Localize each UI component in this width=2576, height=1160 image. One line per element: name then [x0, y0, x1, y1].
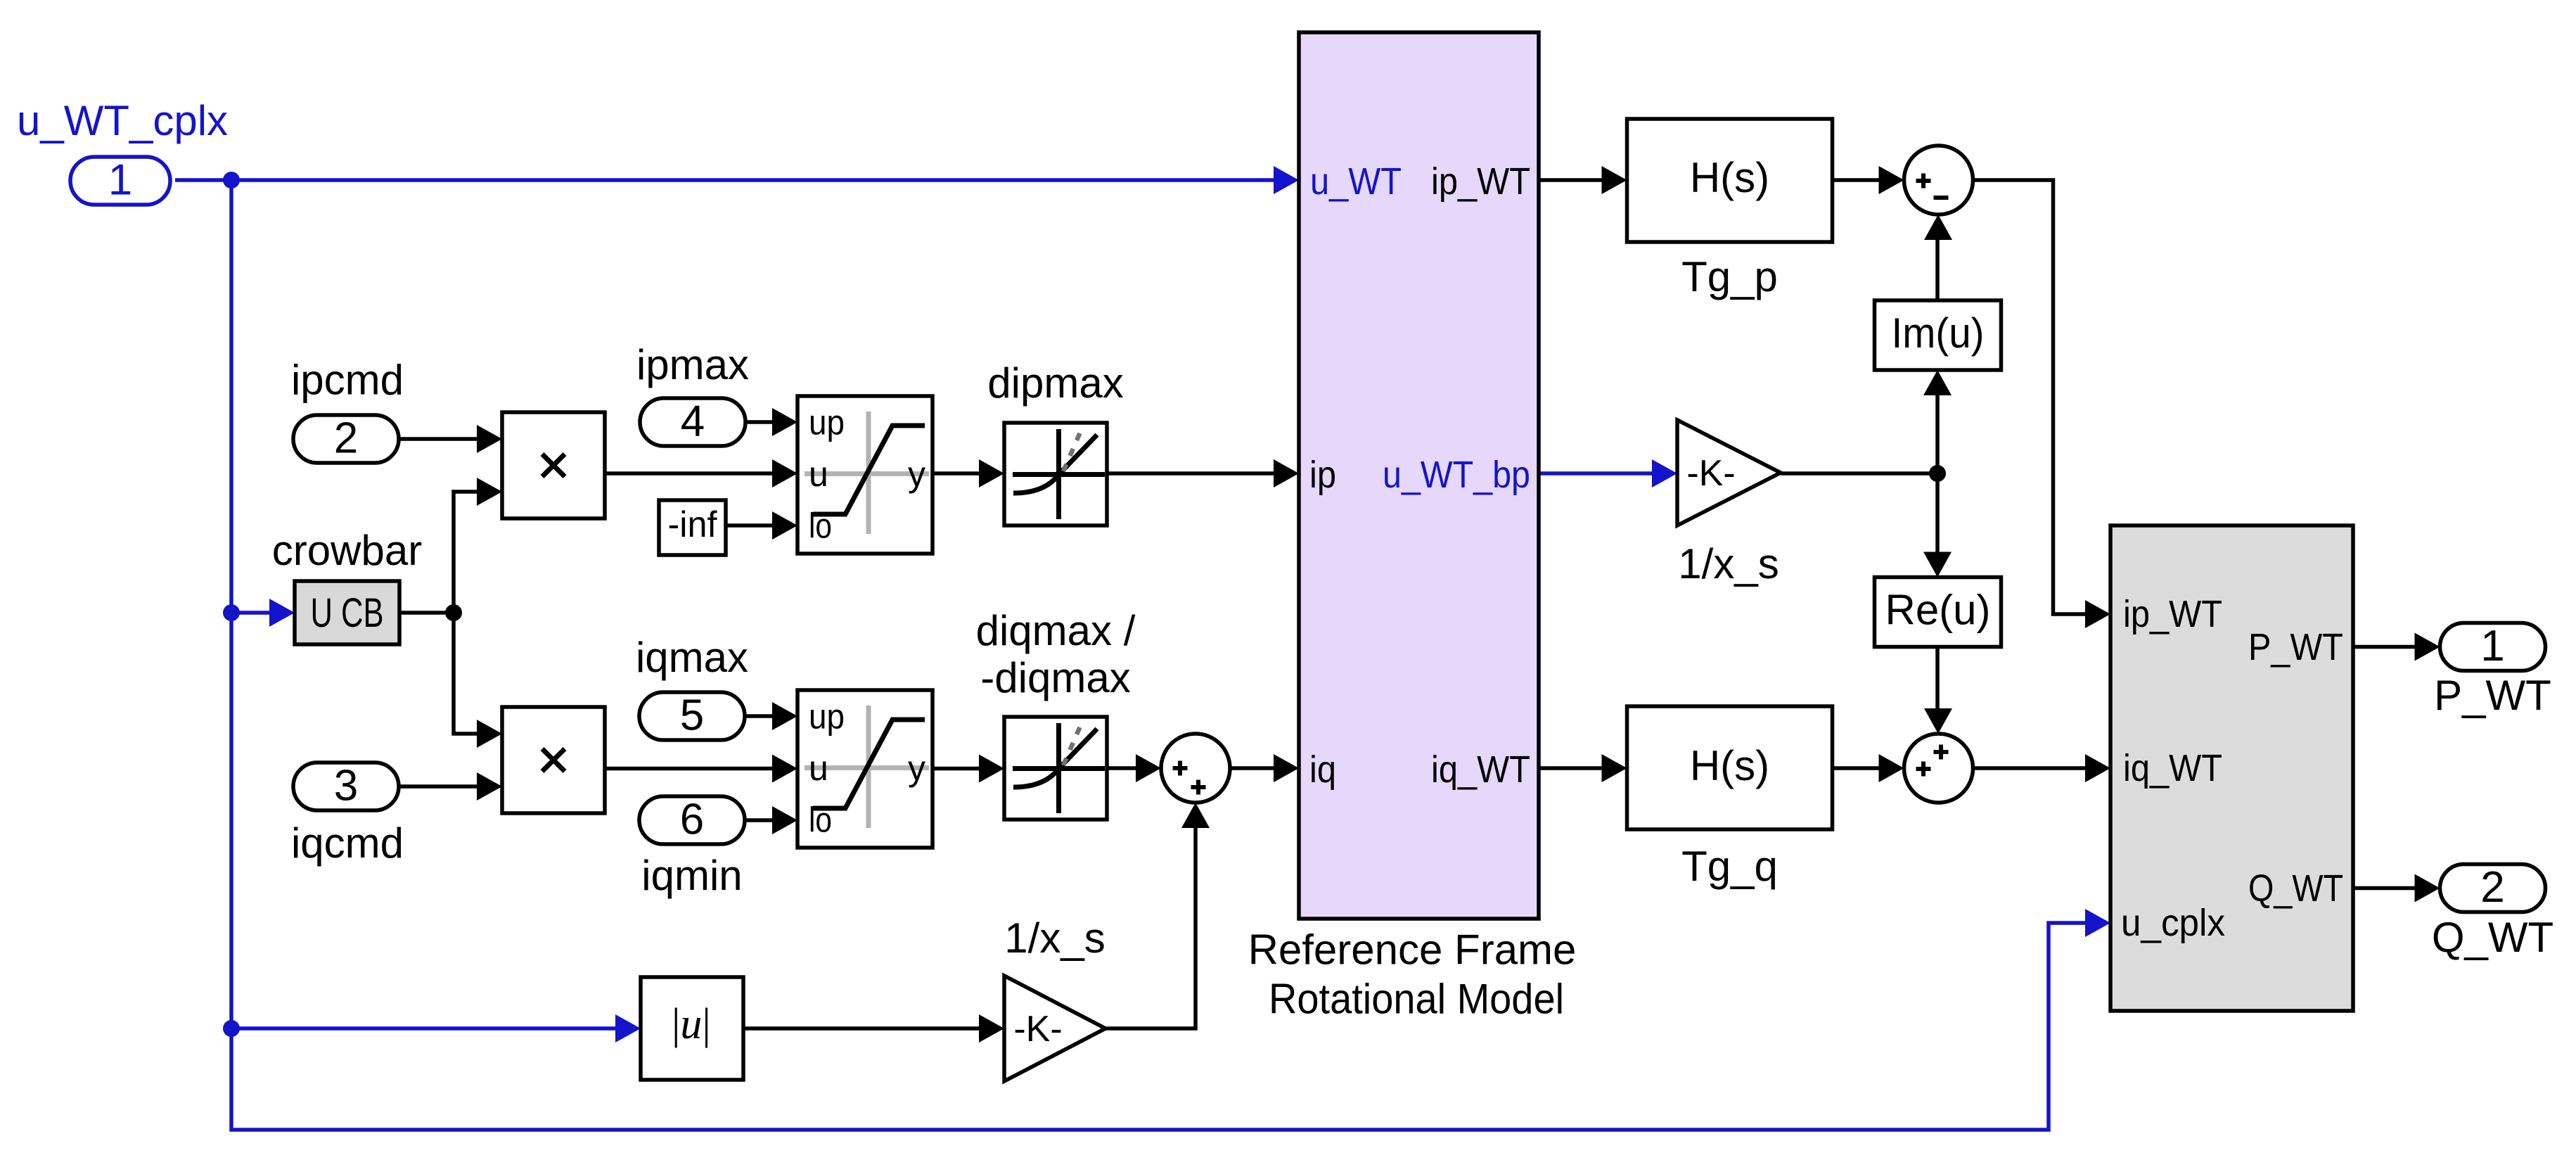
svg-text:dipmax: dipmax — [987, 359, 1123, 407]
svg-text:-diqmax: -diqmax — [980, 654, 1130, 701]
svg-text:U CB: U CB — [311, 590, 384, 636]
svg-text:lo: lo — [809, 506, 832, 545]
svg-text:iqcmd: iqcmd — [291, 820, 404, 867]
svg-text:H(s): H(s) — [1690, 742, 1769, 789]
svg-text:u_WT_cplx: u_WT_cplx — [17, 97, 228, 144]
svg-text:Rotational Model: Rotational Model — [1269, 976, 1564, 1023]
svg-text:up: up — [809, 402, 845, 442]
svg-text:1/x_s: 1/x_s — [1004, 914, 1105, 962]
svg-text:Re(u): Re(u) — [1885, 587, 1990, 634]
svg-text:u_WT: u_WT — [1310, 160, 1402, 203]
svg-text:4: 4 — [681, 397, 705, 446]
svg-text:crowbar: crowbar — [272, 527, 422, 574]
svg-text:ip_WT: ip_WT — [2123, 593, 2222, 635]
svg-text:lo: lo — [809, 800, 832, 839]
svg-text:-K-: -K- — [1686, 453, 1735, 494]
svg-text:Reference Frame: Reference Frame — [1248, 926, 1577, 974]
svg-text:-K-: -K- — [1013, 1009, 1062, 1050]
svg-text:Im(u): Im(u) — [1892, 310, 1985, 357]
svg-text:diqmax /: diqmax / — [976, 607, 1136, 654]
svg-text:iq_WT: iq_WT — [1431, 748, 1530, 791]
svg-text:2: 2 — [2480, 863, 2504, 912]
svg-text:Q_WT: Q_WT — [2248, 867, 2343, 910]
svg-text:H(s): H(s) — [1690, 154, 1769, 201]
svg-text:Tg_q: Tg_q — [1681, 843, 1778, 890]
svg-text:-inf: -inf — [668, 504, 718, 545]
svg-text:1/x_s: 1/x_s — [1678, 540, 1779, 587]
svg-text:iq_WT: iq_WT — [2123, 747, 2222, 789]
svg-text:y: y — [908, 454, 925, 494]
svg-text:y: y — [908, 748, 925, 788]
svg-text:ipmax: ipmax — [636, 341, 749, 388]
svg-text:5: 5 — [680, 691, 704, 740]
svg-text:|u|: |u| — [672, 1000, 711, 1048]
svg-text:Q_WT: Q_WT — [2432, 914, 2553, 961]
svg-text:iq: iq — [1309, 748, 1336, 791]
svg-text:6: 6 — [680, 796, 704, 844]
svg-text:u: u — [809, 748, 828, 788]
svg-text:ip: ip — [1309, 454, 1336, 496]
svg-text:3: 3 — [334, 762, 358, 810]
svg-text:ip_WT: ip_WT — [1431, 160, 1530, 203]
svg-text:up: up — [809, 696, 845, 736]
svg-text:1: 1 — [2480, 622, 2504, 670]
svg-text:ipcmd: ipcmd — [291, 357, 404, 404]
svg-text:u_cplx: u_cplx — [2121, 902, 2225, 944]
svg-text:2: 2 — [334, 414, 358, 463]
svg-text:1: 1 — [108, 156, 132, 205]
svg-text:Tg_p: Tg_p — [1681, 253, 1778, 300]
svg-text:iqmax: iqmax — [636, 634, 748, 681]
svg-text:iqmin: iqmin — [641, 852, 742, 899]
svg-text:u_WT_bp: u_WT_bp — [1383, 454, 1530, 496]
svg-text:P_WT: P_WT — [2248, 626, 2343, 668]
svg-text:P_WT: P_WT — [2434, 672, 2551, 719]
svg-text:u: u — [809, 454, 828, 494]
